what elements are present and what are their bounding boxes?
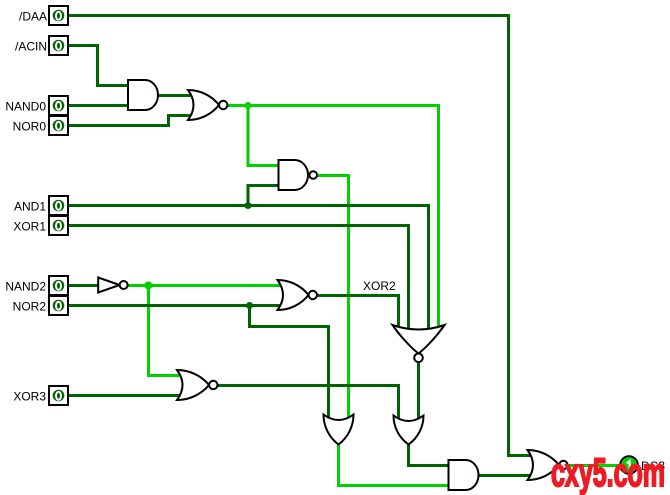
wire branch net NOR2 down to OR U8 left input [250,306,329,419]
wire NOR U2 output long bright run to 5-input NOR U7 input 5 [227,106,439,330]
wire net XOR2 from NOR U5 output to 5-input NOR U7 input 1 [317,296,399,330]
wire NOR U11 output to output pin DC3 [568,464,621,467]
svg-text:NAND0: NAND0 [5,100,46,114]
svg-text:AND1: AND1 [14,200,46,214]
svg-text:XOR1: XOR1 [13,220,46,234]
nor-gate U5 [278,280,317,310]
wire branch NOT U4 output down to NOR U6 upper input [149,286,182,376]
wire net /ACIN from pin to AND U1 upper input [69,46,129,86]
input pin /ACIN [15,36,68,55]
svg-text:XOR2: XOR2 [363,279,396,293]
svg-text:cxy5.com: cxy5.com [551,451,665,495]
node junction on net AND1 [245,202,252,209]
or-gate U8 south facing [324,415,354,445]
not-gate U4 [98,278,127,293]
node junction on NOT U4 output [144,282,152,290]
nor-gate U6 [177,370,218,400]
input pin XOR3 [13,386,68,405]
wire net XOR1 long run to 5-input NOR U7 input 2 [69,226,409,330]
wire net NAND0 to AND U1 lower input [69,104,129,107]
or-gate U9 south facing [393,416,423,445]
input pin NOR2 [13,296,68,315]
wire branch net AND1 up to NAND U3 lower input [248,186,280,206]
wire NOR U6 output to OR U9 left input [217,386,399,419]
wire AND U10 output to NOR U11 lower input [478,474,532,477]
and-gate U10 [449,460,479,490]
wire AND U1 output to NOR U2 upper input [158,94,193,97]
wire net XOR3 to NOR U6 lower input [69,394,181,397]
wire OR U9 output to AND U10 upper input [409,445,450,466]
wire net NOR2 to NOR U5 lower input [69,304,282,307]
node junction on NOR U2 output [245,102,252,109]
input pin AND1 [14,196,68,215]
input pin NOR0 [13,116,68,135]
wire OR U8 output to AND U10 lower input [339,445,450,486]
nor-gate U7 5-input south facing [393,325,445,362]
svg-text:NAND2: NAND2 [5,280,46,294]
input pin XOR1 [13,216,68,235]
wire NOT U4 output to NOR U5 upper input [128,284,282,287]
wire NAND U3 output down to OR U8 right input [317,176,349,419]
wire net NOR0 to NOR U2 lower input [69,116,192,126]
svg-text:/ACIN: /ACIN [15,40,47,54]
wire net AND1 long run to 5-input NOR U7 input 4 [69,206,429,330]
wire net /DAA from pin to final NOR upper input [69,16,532,456]
svg-text:/DAA: /DAA [19,10,47,24]
input pin NAND0 [5,96,68,115]
input pin /DAA [19,6,68,25]
wire 5-input NOR U7 output down to OR U9 right input [417,362,420,419]
output pin DC3 [620,456,665,474]
nand-gate U3 [279,160,318,190]
input pin NAND2 [5,276,68,295]
svg-text:NOR2: NOR2 [13,300,47,314]
node junction on net NOR2 [246,302,253,309]
svg-text:NOR0: NOR0 [13,120,47,134]
svg-text:XOR3: XOR3 [13,390,46,404]
wire branch NOR U2 output down to NAND U3 upper input [248,106,280,166]
and-gate U1 [128,80,158,110]
nor-gate U2 [188,90,227,120]
wire net NAND2 to NOT U4 input [69,284,99,287]
nor-gate U11 [528,450,568,480]
